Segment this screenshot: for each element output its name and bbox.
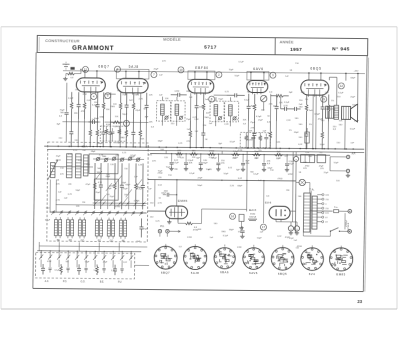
capacitor C1101 xyxy=(108,120,112,147)
coil L osc 1 xyxy=(66,154,72,178)
tube V3 EBF80 xyxy=(188,79,214,95)
svg-text:25μF: 25μF xyxy=(258,120,263,122)
tube socket X3 6BA6 xyxy=(214,248,235,269)
wire anode stub xyxy=(138,71,140,78)
svg-text:4,7K: 4,7K xyxy=(68,154,73,156)
svg-text:47K: 47K xyxy=(60,174,64,176)
tube socket X1 6BQ7 xyxy=(154,246,177,269)
scattered component value labels xyxy=(45,89,360,249)
svg-text:47K: 47K xyxy=(152,161,156,163)
svg-text:75pF: 75pF xyxy=(250,122,256,124)
extra top band labels xyxy=(67,60,356,243)
svg-text:0,5μF: 0,5μF xyxy=(45,220,51,222)
svg-text:2,2K: 2,2K xyxy=(138,164,143,166)
capacitor CT7 xyxy=(141,163,145,209)
svg-text:12K: 12K xyxy=(180,157,184,159)
frame double right xyxy=(365,58,369,292)
capacitor decoupling xyxy=(241,154,245,168)
svg-text:4,7K: 4,7K xyxy=(134,200,139,202)
svg-text:6BQ7: 6BQ7 xyxy=(98,64,109,68)
capacitor C12 xyxy=(88,120,98,124)
coil L osc 3 xyxy=(83,155,88,176)
resistor RT3 xyxy=(113,163,116,209)
trimmer capacitor CT6 xyxy=(218,116,222,120)
node n11 xyxy=(82,66,88,72)
svg-text:A.P.: A.P. xyxy=(352,152,356,155)
capacitor CT4 xyxy=(120,163,124,209)
ground xyxy=(184,167,188,171)
svg-text:1MΩ: 1MΩ xyxy=(110,106,115,108)
resistor R2540 xyxy=(253,94,256,121)
coil L5 pair xyxy=(107,218,114,239)
wire anode stub xyxy=(263,73,265,80)
terminal PU L xyxy=(158,230,161,233)
svg-text:2,2K: 2,2K xyxy=(194,119,199,121)
capacitor C2760 xyxy=(274,94,278,121)
svg-text:0,5μF: 0,5μF xyxy=(256,116,262,118)
svg-text:GRAMMONT: GRAMMONT xyxy=(72,46,114,52)
node n17 xyxy=(260,224,266,230)
svg-text:6BQ5: 6BQ5 xyxy=(278,272,287,276)
svg-text:4,7K: 4,7K xyxy=(283,105,288,107)
keyboard contacts xyxy=(39,251,133,265)
oscillator inner box A xyxy=(89,154,118,174)
shield box V3 xyxy=(188,71,215,80)
svg-text:1/2W: 1/2W xyxy=(248,139,253,141)
svg-text:0,1μF: 0,1μF xyxy=(137,188,143,190)
capacitor decoupling xyxy=(216,154,220,168)
svg-text:1,2K: 1,2K xyxy=(305,152,310,154)
svg-text:16: 16 xyxy=(231,214,235,218)
svg-text:5%: 5% xyxy=(238,231,241,233)
capacitor decoupling xyxy=(184,153,188,167)
svg-text:EM85: EM85 xyxy=(178,199,188,203)
svg-text:0,1μF: 0,1μF xyxy=(130,156,136,158)
svg-text:75pF: 75pF xyxy=(166,167,171,169)
wire tuner left verticals xyxy=(50,180,56,213)
header title box xyxy=(37,35,368,55)
trimmer capacitor CV122 xyxy=(120,157,124,161)
capacitor CT1 xyxy=(99,163,103,209)
svg-text:47pF: 47pF xyxy=(106,124,112,126)
wire B+ strip xyxy=(150,154,330,156)
resistor EM85 grid R50 xyxy=(178,209,202,225)
wire risers keyboard xyxy=(59,242,119,251)
svg-text:0,5μF: 0,5μF xyxy=(244,99,250,101)
svg-text:5717: 5717 xyxy=(204,44,217,49)
wire column xyxy=(109,92,111,119)
svg-text:1MΩ: 1MΩ xyxy=(221,231,226,233)
svg-text:75pF: 75pF xyxy=(206,169,211,171)
wire tuner inner bus2 xyxy=(56,204,146,207)
svg-text:1/2W: 1/2W xyxy=(288,174,293,176)
shield box V2 xyxy=(116,69,149,79)
node n10 xyxy=(178,67,184,73)
resistor R1330 xyxy=(132,93,135,120)
ground xyxy=(285,168,289,172)
wire EM85 to ELC xyxy=(202,208,247,210)
svg-text:B.E.: B.E. xyxy=(100,282,105,284)
coil L6 pair xyxy=(119,218,126,239)
wire v4 coupling xyxy=(280,97,282,109)
choke ELC-5 text block xyxy=(248,209,257,221)
switch row xyxy=(50,210,147,216)
svg-text:6BQ5: 6BQ5 xyxy=(310,66,321,70)
svg-text:47pF: 47pF xyxy=(135,110,141,112)
svg-text:47K: 47K xyxy=(56,184,60,186)
svg-text:EBF80: EBF80 xyxy=(195,66,209,70)
capacitor CK4 xyxy=(113,265,117,276)
node n16 xyxy=(230,213,236,219)
resistor RK3 xyxy=(96,265,99,276)
wire speaker return xyxy=(344,119,346,149)
resistor RT0 xyxy=(93,163,96,209)
svg-text:25μF: 25μF xyxy=(56,156,61,158)
svg-text:12K: 12K xyxy=(248,130,252,132)
svg-text:11: 11 xyxy=(84,67,87,71)
svg-text:1/2W: 1/2W xyxy=(47,261,52,263)
trimmer capacitor CV98 xyxy=(96,157,100,161)
svg-text:N° 945: N° 945 xyxy=(332,46,350,52)
svg-text:2,2K: 2,2K xyxy=(230,185,235,187)
svg-text:0,1μF: 0,1μF xyxy=(173,162,179,164)
coil T4 primary xyxy=(161,104,165,115)
svg-text:4,7K: 4,7K xyxy=(209,91,214,93)
capacitor C1331 xyxy=(131,120,135,147)
wire EM85 top xyxy=(176,180,178,206)
wire pot drop xyxy=(263,102,265,111)
svg-text:ELC-5: ELC-5 xyxy=(249,209,257,212)
wire anode stub xyxy=(320,73,322,80)
svg-text:5%: 5% xyxy=(94,270,97,272)
resistor R2701 xyxy=(269,121,272,148)
wire anode stub xyxy=(96,71,98,78)
pilot lamps xyxy=(299,179,305,185)
svg-text:560: 560 xyxy=(65,261,68,263)
power transformer TA primary winding xyxy=(303,193,310,232)
svg-text:ANNÉE: ANNÉE xyxy=(280,39,294,44)
capacitor CK2 xyxy=(77,264,81,275)
svg-text:0,1μF: 0,1μF xyxy=(55,270,61,272)
resistor R3221 xyxy=(321,122,324,149)
pickup transformer xyxy=(239,214,244,226)
svg-text:68pF: 68pF xyxy=(125,184,130,186)
wire ELC riser xyxy=(246,154,249,211)
svg-text:0,5μF: 0,5μF xyxy=(116,142,122,144)
svg-text:50pF: 50pF xyxy=(235,75,240,77)
svg-text:1/2W: 1/2W xyxy=(174,91,179,93)
wire column xyxy=(269,94,271,121)
wire antenna lead xyxy=(66,83,68,109)
trimmer capacitor CV130 xyxy=(128,157,132,161)
wire lamp feed xyxy=(296,181,299,183)
svg-text:68pF: 68pF xyxy=(98,143,103,145)
coil L1 pair xyxy=(54,217,61,238)
tube socket X4 6AV6 xyxy=(243,248,265,270)
capacitor C a2 xyxy=(64,109,69,142)
switch wiper strokes xyxy=(96,171,142,205)
wire column xyxy=(145,120,147,147)
resistor R1200 xyxy=(119,92,122,119)
svg-text:0,1μF: 0,1μF xyxy=(211,158,217,160)
svg-text:0,1μF: 0,1μF xyxy=(189,173,195,175)
wire column xyxy=(315,94,317,121)
svg-text:5%: 5% xyxy=(289,130,292,132)
svg-text:50: 50 xyxy=(159,198,161,200)
svg-text:75pF: 75pF xyxy=(143,228,148,230)
terminal mains L xyxy=(348,209,352,213)
svg-text:25μF: 25μF xyxy=(324,172,330,174)
trimmer capacitor CT5 xyxy=(179,116,183,120)
wire plate to OPT xyxy=(328,77,330,80)
tube V2 5AJ8 xyxy=(117,78,148,94)
wire ground bus lower xyxy=(47,149,364,152)
second switch contact row xyxy=(93,201,147,206)
wire AVC line xyxy=(148,180,296,181)
keyboard extra parts xyxy=(40,250,131,273)
resistor RS175 xyxy=(175,152,183,155)
node n9 xyxy=(105,93,111,99)
svg-text:50pF: 50pF xyxy=(352,104,357,106)
rectifier tube 6V4 xyxy=(269,206,290,222)
svg-text:1/2W: 1/2W xyxy=(237,247,242,249)
wire speaker top feed xyxy=(357,74,359,104)
svg-text:50pF: 50pF xyxy=(224,173,229,175)
svg-text:0,1μF: 0,1μF xyxy=(338,92,344,94)
svg-text:CONSTRUCTEUR: CONSTRUCTEUR xyxy=(45,39,80,43)
capacitor C41 xyxy=(171,93,187,97)
svg-text:25μF: 25μF xyxy=(289,163,295,165)
ground xyxy=(63,77,67,81)
svg-text:12: 12 xyxy=(340,84,344,88)
svg-text:500mA: 500mA xyxy=(249,215,256,218)
wire column xyxy=(89,92,91,119)
detector sub-box xyxy=(100,126,126,141)
terminal HP top xyxy=(346,155,349,158)
resistor R901 xyxy=(89,119,92,146)
svg-text:10: 10 xyxy=(179,68,183,72)
power transformer TA secondary winding xyxy=(312,196,317,229)
svg-text:0,5μF: 0,5μF xyxy=(230,141,236,143)
svg-text:0,1μF: 0,1μF xyxy=(68,98,74,100)
svg-text:10K: 10K xyxy=(243,119,247,121)
capacitor decoupling xyxy=(199,153,203,167)
svg-text:50pF: 50pF xyxy=(334,162,339,164)
svg-text:6V3: 6V3 xyxy=(326,195,329,197)
ground EM85 xyxy=(168,219,170,220)
svg-text:A.C.: A.C. xyxy=(45,280,50,283)
svg-text:PO: PO xyxy=(69,240,73,242)
resistor R2030 xyxy=(202,93,205,120)
resistor RS231 xyxy=(231,153,240,156)
coil L3 pair xyxy=(78,217,85,238)
resistor R3060 xyxy=(305,94,308,121)
svg-text:GO: GO xyxy=(81,240,85,242)
wire anode stub xyxy=(125,71,127,78)
svg-text:12K: 12K xyxy=(164,157,168,159)
svg-text:68pF: 68pF xyxy=(91,151,96,153)
wire anode stub xyxy=(206,72,208,79)
svg-text:0,1μF: 0,1μF xyxy=(253,174,259,176)
tube socket X5 6BQ5 xyxy=(271,247,294,270)
wire column xyxy=(327,122,329,149)
svg-text:P.U.: P.U. xyxy=(160,225,165,228)
trimmer capacitor CV114 xyxy=(112,156,116,160)
wire anode stub xyxy=(194,72,196,79)
tube V1 6BQ7 xyxy=(76,78,105,94)
coil T5 primary xyxy=(214,105,218,116)
svg-text:47pF: 47pF xyxy=(354,120,359,122)
transformer core xyxy=(310,191,312,234)
resistor R43 xyxy=(271,94,289,97)
wire column xyxy=(119,120,121,147)
resistor RS274 xyxy=(274,153,283,156)
svg-text:25μF: 25μF xyxy=(350,96,356,98)
terminal HP bottom xyxy=(346,169,349,172)
svg-text:27K: 27K xyxy=(320,168,324,170)
capacitor C30 xyxy=(281,107,291,111)
wire ground bus upper xyxy=(44,146,364,149)
output transformer T3 xyxy=(326,106,334,118)
resistor R3280 xyxy=(327,94,330,121)
wire tuner inner bus xyxy=(52,166,93,168)
terminal mains R xyxy=(348,230,352,234)
svg-text:4,7K: 4,7K xyxy=(98,182,103,184)
svg-text:2,2K: 2,2K xyxy=(224,124,229,126)
svg-text:BE: BE xyxy=(57,240,61,242)
wire HT second riser xyxy=(292,152,295,222)
resistor RS252 xyxy=(252,153,261,156)
electrolytic 50uF xyxy=(294,156,299,161)
tube socket X7 EM85 xyxy=(329,248,352,271)
wire column xyxy=(139,93,141,120)
tuner dashed enclosure xyxy=(47,142,148,242)
node n12 xyxy=(338,83,344,89)
wire PU arrow xyxy=(160,230,181,237)
wire pu drop xyxy=(154,180,156,207)
wire coupling a xyxy=(105,93,115,95)
svg-text:50pF: 50pF xyxy=(257,238,262,240)
svg-text:27K: 27K xyxy=(221,163,225,165)
node n3 xyxy=(270,72,276,78)
svg-text:15K: 15K xyxy=(339,120,343,122)
capacitor C711 xyxy=(69,119,73,146)
ground xyxy=(346,173,350,177)
node n7 xyxy=(151,72,157,78)
capacitor decoupling xyxy=(170,153,174,167)
svg-text:15K: 15K xyxy=(74,113,78,115)
shield box V4 xyxy=(247,71,269,80)
IF transformer T5 can xyxy=(210,101,239,122)
svg-text:470Ω: 470Ω xyxy=(56,160,61,162)
svg-text:6V3: 6V3 xyxy=(325,213,328,215)
wire column xyxy=(312,94,314,121)
ground xyxy=(240,234,244,238)
svg-text:10K: 10K xyxy=(198,229,202,231)
capacitor C2480 xyxy=(246,94,250,121)
svg-text:0,1μF: 0,1μF xyxy=(238,61,244,63)
capacitor C3220 xyxy=(320,94,324,121)
svg-text:6BA6: 6BA6 xyxy=(220,270,229,274)
trimmer capacitor CV138 xyxy=(136,157,140,161)
ground xyxy=(216,167,220,171)
wire tuner column xyxy=(128,163,130,209)
svg-text:75pF: 75pF xyxy=(229,69,234,71)
coil T4 secondary xyxy=(175,104,179,115)
capacitor decoupling xyxy=(262,154,266,168)
transformer taps xyxy=(317,194,329,224)
fuse F1 xyxy=(310,207,348,213)
wire left keyboard stub xyxy=(38,242,40,251)
svg-text:27K: 27K xyxy=(269,104,273,106)
resistor R840 xyxy=(83,92,86,119)
capacitor C970 xyxy=(95,92,99,119)
svg-text:25μF: 25μF xyxy=(154,69,160,71)
wire column xyxy=(77,119,79,146)
svg-text:17: 17 xyxy=(262,225,266,229)
filter capacitor C71 xyxy=(294,222,299,231)
AVC sub-box xyxy=(240,132,270,147)
capacitor C50 xyxy=(139,218,143,237)
wire column xyxy=(247,121,249,148)
svg-text:68pF: 68pF xyxy=(294,132,299,134)
wire column xyxy=(83,119,85,146)
antenna xyxy=(62,62,81,77)
keyboard bus xyxy=(37,250,141,253)
svg-text:6V4: 6V4 xyxy=(265,201,272,205)
svg-text:27K: 27K xyxy=(186,141,190,143)
wire column xyxy=(312,121,314,148)
wire column xyxy=(195,120,197,147)
tuner extra labels xyxy=(55,150,143,205)
tube V5 6BQ5 xyxy=(301,80,329,97)
svg-text:SECTEUR: SECTEUR xyxy=(348,222,350,232)
wire HP links xyxy=(330,157,346,171)
capacitor C1031 xyxy=(101,119,105,146)
wire anode stub xyxy=(308,73,310,80)
wire anode stub xyxy=(84,71,86,78)
svg-text:470Ω: 470Ω xyxy=(115,206,120,208)
wire HT from rectifier xyxy=(291,210,296,212)
svg-text:75pF: 75pF xyxy=(186,119,191,121)
svg-text:6V4: 6V4 xyxy=(309,272,316,276)
svg-text:250: 250 xyxy=(326,199,329,201)
keyboard dashed box xyxy=(35,252,134,278)
node n1 xyxy=(114,66,120,72)
svg-text:15K: 15K xyxy=(117,90,121,92)
node n8 xyxy=(209,96,215,102)
svg-text:1MΩ: 1MΩ xyxy=(134,94,139,96)
IF transformer T4 can xyxy=(156,101,185,122)
wire line 211 xyxy=(148,210,166,212)
svg-text:25μF: 25μF xyxy=(123,188,129,190)
capacitor C42 xyxy=(227,93,245,97)
svg-text:47μF: 47μF xyxy=(319,165,324,167)
magic eye EM85 xyxy=(166,206,188,222)
svg-text:15K: 15K xyxy=(115,116,119,118)
svg-text:47pF: 47pF xyxy=(85,184,90,186)
capacitor C ps xyxy=(240,226,244,234)
wire column xyxy=(315,122,317,149)
HT filter network box xyxy=(301,152,326,168)
svg-text:550Ω: 550Ω xyxy=(250,213,256,215)
svg-text:50pF: 50pF xyxy=(197,185,202,187)
svg-text:MODÈLE: MODÈLE xyxy=(163,37,181,42)
svg-text:T.A.: T.A. xyxy=(309,188,314,192)
svg-text:1/2W: 1/2W xyxy=(187,237,192,239)
resistor R cathode V5 xyxy=(305,132,310,143)
svg-text:50pF: 50pF xyxy=(94,118,99,120)
